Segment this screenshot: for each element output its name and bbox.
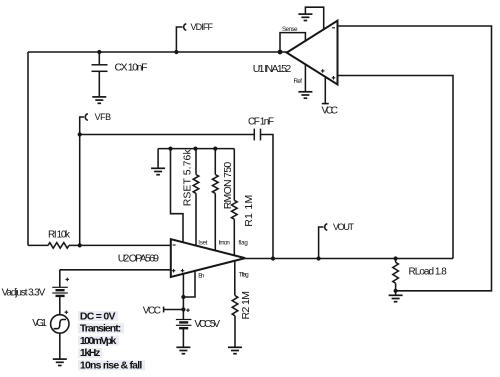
svg-text:Tflag: Tflag bbox=[239, 271, 249, 278]
plus-minus marks bbox=[65, 28, 336, 314]
plus U1 supply bbox=[321, 70, 325, 72]
svg-text:RMON 750: RMON 750 bbox=[222, 162, 234, 210]
svg-text:VCC: VCC bbox=[322, 106, 339, 117]
annotation text bbox=[80, 310, 142, 371]
resistor RI 10k bbox=[48, 243, 69, 249]
svg-text:U2 OPA569: U2 OPA569 bbox=[118, 252, 159, 264]
battery VCC 5V bbox=[176, 320, 192, 326]
svg-text:VDIFF: VDIFF bbox=[191, 22, 214, 32]
ground below VG1 bbox=[53, 359, 67, 365]
capacitor CX 10nF bbox=[98, 52, 100, 65]
wire U1 top pin to ground bbox=[305, 7, 323, 29]
resistor RSET 5.76k bbox=[195, 149, 197, 175]
svg-text:VOUT: VOUT bbox=[333, 222, 355, 232]
svg-text:1kHz: 1kHz bbox=[80, 347, 100, 359]
wire upper-right loop to U1 plus input bbox=[338, 76, 454, 259]
resistor RLoad 1.8 bbox=[395, 259, 397, 263]
wire U2 output to right corner bbox=[245, 258, 453, 260]
plus Vadjust bbox=[66, 278, 70, 280]
resistor R2 1M on Tflag pin bbox=[234, 261, 236, 296]
svg-text:RSET 5.76k: RSET 5.76k bbox=[181, 149, 193, 207]
annotation background bbox=[78, 311, 145, 370]
wire VFB vertical bbox=[79, 135, 81, 246]
svg-text:Ref: Ref bbox=[294, 78, 303, 85]
svg-text:Vadjust 3.3V: Vadjust 3.3V bbox=[2, 287, 46, 298]
plus U1 input bbox=[332, 77, 336, 79]
probe VOUT bbox=[319, 227, 324, 259]
ground below CX bbox=[92, 97, 106, 103]
wire En pin to V+ node bbox=[183, 271, 195, 297]
ground bus above RSET/RMON/R1 bbox=[158, 148, 234, 150]
battery Vadjust 3.3V bbox=[59, 270, 61, 288]
ground below RLoad bbox=[389, 295, 403, 301]
svg-text:Iset: Iset bbox=[198, 239, 207, 246]
svg-text:CF 1nF: CF 1nF bbox=[248, 116, 274, 127]
jumper VCC bbox=[163, 307, 165, 313]
svg-text:DC = 0V: DC = 0V bbox=[80, 310, 116, 322]
pin VCC of U1 bbox=[324, 77, 326, 104]
ground symbol on bus bbox=[151, 168, 165, 174]
svg-text:CX 10nF: CX 10nF bbox=[115, 62, 148, 74]
svg-text:100mVpk: 100mVpk bbox=[80, 335, 117, 347]
svg-text:VG1: VG1 bbox=[32, 318, 47, 329]
ground below VCC 5V bbox=[176, 347, 190, 353]
svg-text:R1 1M: R1 1M bbox=[243, 195, 255, 227]
svg-text:Sense: Sense bbox=[282, 26, 298, 33]
probe VDIFF bbox=[176, 27, 182, 52]
wire top horizontal from left corner to U1 output bbox=[28, 51, 287, 53]
svg-text:VCC 5V: VCC 5V bbox=[195, 319, 221, 330]
wire VFB horizontal to CF bbox=[80, 134, 255, 136]
svg-text:RI 10k: RI 10k bbox=[48, 230, 71, 241]
wire V- pin of U2 to ground bus bbox=[171, 149, 184, 244]
resistor RMON 750 bbox=[214, 149, 216, 175]
minus U2 bbox=[173, 244, 176, 246]
wire Ref pin to ground bbox=[304, 64, 306, 91]
svg-text:VFB: VFB bbox=[95, 112, 112, 122]
plus U2 supply bbox=[181, 270, 185, 272]
wire lower-right loop RLoad bottom to U1 minus input bbox=[338, 26, 492, 291]
svg-text:RLoad 1.8: RLoad 1.8 bbox=[409, 267, 448, 278]
plus VCC5V bbox=[186, 309, 190, 311]
plus VG1 bbox=[65, 311, 69, 313]
svg-text:R2 1M: R2 1M bbox=[240, 291, 252, 320]
minus U1 bbox=[332, 27, 335, 29]
svg-text:VCC: VCC bbox=[143, 305, 161, 316]
svg-text:flag: flag bbox=[238, 240, 248, 247]
svg-text:En: En bbox=[198, 273, 204, 280]
wire Sense pin to output node bbox=[280, 33, 305, 52]
resistor R1 1M bbox=[233, 149, 235, 201]
svg-text:Imon: Imon bbox=[219, 239, 231, 246]
wire V+ pin down to battery bbox=[182, 274, 184, 320]
plus U2 input bbox=[172, 270, 176, 272]
ground above U1 bbox=[298, 14, 312, 20]
capacitor CF 1nF bbox=[254, 129, 260, 141]
ground below Ref bbox=[298, 92, 312, 98]
wire U2 plus input from Vadjust bbox=[60, 269, 171, 271]
wire CF to output node bbox=[261, 135, 274, 259]
source VG1 bbox=[51, 315, 69, 333]
probe VFB bbox=[80, 117, 85, 135]
op-amp U1 INA152 bbox=[287, 21, 338, 85]
ground below R2 bbox=[228, 347, 242, 353]
wire RI row to U2 minus input bbox=[28, 244, 48, 246]
svg-text:U1 INA152: U1 INA152 bbox=[253, 63, 292, 75]
svg-text:Transient:: Transient: bbox=[80, 323, 121, 335]
wire left vertical bbox=[27, 52, 29, 245]
op-amp U2 OPA569 bbox=[171, 239, 245, 277]
svg-text:10ns rise & fall: 10ns rise & fall bbox=[80, 360, 142, 372]
